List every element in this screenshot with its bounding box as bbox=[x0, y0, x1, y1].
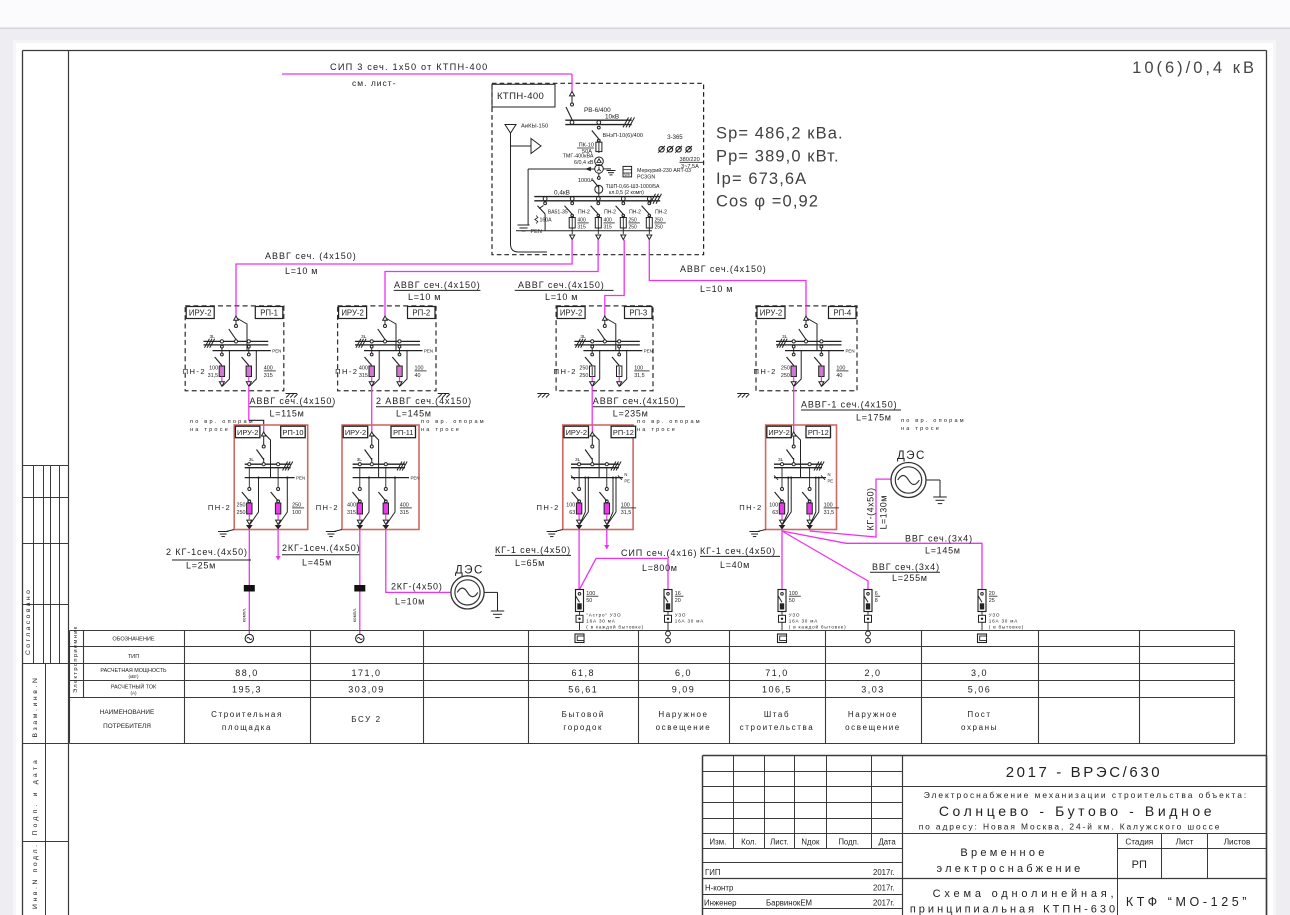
svg-text:УЗО: УЗО bbox=[675, 613, 687, 618]
svg-text:ПН-2: ПН-2 bbox=[537, 503, 560, 512]
svg-text:Временное: Временное bbox=[960, 847, 1047, 859]
svg-text:L=255м: L=255м bbox=[892, 573, 928, 583]
svg-text:ВА51-35: ВА51-35 bbox=[548, 210, 568, 216]
svg-text:315: 315 bbox=[604, 225, 613, 231]
svg-text:Наружное: Наружное bbox=[658, 710, 708, 719]
svg-text:ДЭС: ДЭС bbox=[897, 450, 926, 462]
svg-text:Электроприемник: Электроприемник bbox=[73, 625, 79, 693]
svg-text:по вр. опорам: по вр. опорам bbox=[637, 419, 702, 425]
svg-text:АВВГ-1 сеч.(4х150): АВВГ-1 сеч.(4х150) bbox=[801, 400, 898, 410]
svg-text:Подп.: Подп. bbox=[838, 838, 859, 847]
svg-text:УЗО: УЗО bbox=[789, 613, 801, 618]
svg-text:100: 100 bbox=[769, 503, 778, 509]
svg-text:РП-11: РП-11 bbox=[393, 428, 413, 437]
svg-text:L=10 м: L=10 м bbox=[700, 284, 733, 294]
svg-text:ОБОЗНАЧЕНИЕ: ОБОЗНАЧЕНИЕ bbox=[112, 637, 155, 643]
svg-text:РП: РП bbox=[1132, 859, 1147, 871]
svg-text:88,0: 88,0 bbox=[235, 668, 259, 678]
svg-text:ИРУ-2: ИРУ-2 bbox=[189, 309, 212, 318]
svg-text:Cos φ =0,92: Cos φ =0,92 bbox=[716, 193, 819, 211]
svg-text:2017г.: 2017г. bbox=[873, 899, 894, 908]
svg-text:Штаб: Штаб bbox=[764, 710, 790, 719]
svg-text:L=40м: L=40м bbox=[720, 560, 750, 570]
svg-text:на тросе: на тросе bbox=[901, 426, 941, 432]
svg-text:100: 100 bbox=[292, 510, 301, 516]
svg-text:на тросе: на тросе bbox=[637, 427, 677, 433]
svg-text:по адресу: Новая Москва, 24-й: по адресу: Новая Москва, 24-й км. Калужс… bbox=[919, 822, 1222, 832]
svg-text:АиКЫ-150: АиКЫ-150 bbox=[521, 123, 548, 129]
svg-text:9,09: 9,09 bbox=[672, 685, 696, 695]
svg-text:по вр. опорам: по вр. опорам bbox=[901, 418, 966, 424]
svg-text:ИРУ-2: ИРУ-2 bbox=[760, 309, 783, 318]
svg-text:( в каждой бытовке): ( в каждой бытовке) bbox=[789, 624, 847, 630]
svg-text:PEN: PEN bbox=[531, 229, 542, 235]
svg-text:ИРУ-2: ИРУ-2 bbox=[345, 428, 366, 437]
svg-text:171,0: 171,0 bbox=[351, 668, 381, 678]
svg-text:освещение: освещение bbox=[656, 723, 712, 732]
svg-text:25: 25 bbox=[989, 598, 995, 604]
svg-text:АВВГ сеч.(4х150): АВВГ сеч.(4х150) bbox=[680, 264, 767, 274]
svg-text:Инв.N подл.: Инв.N подл. bbox=[32, 842, 39, 909]
svg-text:PEN: PEN bbox=[272, 349, 281, 354]
svg-text:З-365: З-365 bbox=[667, 135, 683, 141]
svg-text:31,5: 31,5 bbox=[634, 373, 645, 379]
svg-text:31,5: 31,5 bbox=[208, 373, 219, 379]
svg-text:250: 250 bbox=[781, 373, 790, 379]
svg-text:3~7,5А: 3~7,5А bbox=[681, 164, 699, 170]
svg-text:ВВГ сеч.(3х4): ВВГ сеч.(3х4) bbox=[872, 562, 940, 572]
svg-text:Электроснабжение механизации с: Электроснабжение механизации строительст… bbox=[924, 790, 1248, 800]
svg-text:ПН-2: ПН-2 bbox=[754, 367, 777, 376]
svg-text:61,8: 61,8 bbox=[571, 668, 595, 678]
svg-text:ПН-2: ПН-2 bbox=[578, 210, 590, 216]
svg-text:ПН-2: ПН-2 bbox=[208, 503, 231, 512]
svg-text:3,03: 3,03 bbox=[861, 685, 885, 695]
svg-text:195,3: 195,3 bbox=[232, 685, 262, 695]
svg-text:Изм.: Изм. bbox=[710, 838, 727, 847]
svg-text:см. лист-: см. лист- bbox=[352, 78, 397, 88]
svg-text:PE: PE bbox=[828, 479, 834, 484]
svg-text:50: 50 bbox=[789, 598, 795, 604]
svg-text:ПН-2: ПН-2 bbox=[335, 367, 358, 376]
svg-text:250: 250 bbox=[579, 373, 588, 379]
svg-text:400: 400 bbox=[359, 366, 368, 372]
svg-text:6/0,4 кВ: 6/0,4 кВ bbox=[574, 160, 594, 166]
svg-text:Ip= 673,6А: Ip= 673,6А bbox=[716, 170, 807, 188]
svg-text:3L: 3L bbox=[357, 457, 363, 463]
svg-text:по вр. опорам: по вр. опорам bbox=[421, 419, 486, 425]
svg-text:Листов: Листов bbox=[1224, 838, 1251, 847]
svg-text:2 КГ-1сеч.(4х50): 2 КГ-1сеч.(4х50) bbox=[166, 547, 248, 557]
svg-text:ВНэП-10(6)/400: ВНэП-10(6)/400 bbox=[603, 133, 643, 139]
svg-text:PEN: PEN bbox=[411, 475, 420, 480]
svg-text:РП-1: РП-1 bbox=[260, 309, 278, 318]
svg-text:(кВт): (кВт) bbox=[128, 674, 139, 679]
svg-text:РП-3: РП-3 bbox=[629, 309, 647, 318]
svg-text:ДЭС: ДЭС bbox=[455, 565, 484, 577]
svg-text:АВВГ сеч.(4х150): АВВГ сеч.(4х150) bbox=[518, 280, 605, 290]
svg-text:Взам.инв.N: Взам.инв.N bbox=[32, 676, 39, 738]
svg-text:100: 100 bbox=[209, 366, 218, 372]
svg-text:РП-12: РП-12 bbox=[808, 428, 829, 437]
svg-text:ПН-2: ПН-2 bbox=[316, 503, 339, 512]
svg-text:РП-12: РП-12 bbox=[613, 428, 634, 437]
svg-text:( в бытовке): ( в бытовке) bbox=[989, 625, 1024, 630]
svg-text:N: N bbox=[828, 472, 831, 477]
svg-text:КГ-(4х50): КГ-(4х50) bbox=[866, 487, 876, 530]
svg-text:0,4кВ: 0,4кВ bbox=[554, 190, 570, 197]
svg-text:ПН-2: ПН-2 bbox=[739, 503, 762, 512]
svg-text:Nдок: Nдок bbox=[801, 838, 820, 847]
svg-text:400: 400 bbox=[347, 503, 356, 509]
svg-text:L=10м: L=10м bbox=[395, 597, 425, 607]
svg-text:Лист: Лист bbox=[1176, 838, 1194, 847]
svg-text:Pp= 389,0 кВт.: Pp= 389,0 кВт. bbox=[716, 148, 840, 166]
svg-text:Подп. и дата: Подп. и дата bbox=[32, 757, 39, 835]
svg-text:Строительная: Строительная bbox=[211, 710, 283, 719]
svg-text:2КГ-(4х50): 2КГ-(4х50) bbox=[391, 582, 443, 592]
svg-text:компл.: компл. bbox=[352, 608, 357, 622]
svg-text:ИРУ-2: ИРУ-2 bbox=[560, 309, 583, 318]
svg-text:303,09: 303,09 bbox=[348, 685, 385, 695]
svg-text:охраны: охраны bbox=[961, 723, 998, 732]
svg-text:10кВ: 10кВ bbox=[605, 113, 619, 120]
svg-text:16А 30 мА: 16А 30 мА bbox=[675, 619, 704, 624]
svg-text:L=10 м: L=10 м bbox=[285, 266, 318, 276]
svg-text:63: 63 bbox=[772, 510, 778, 516]
svg-text:PE: PE bbox=[624, 479, 630, 484]
svg-text:площадка: площадка bbox=[222, 723, 272, 732]
svg-text:16А 30 мА: 16А 30 мА bbox=[989, 619, 1018, 624]
svg-text:250: 250 bbox=[629, 225, 638, 231]
svg-text:Инженер: Инженер bbox=[704, 899, 737, 908]
svg-text:ПН-2: ПН-2 bbox=[604, 210, 616, 216]
svg-text:освещение: освещение bbox=[845, 723, 901, 732]
svg-text:Схема однолинейная,: Схема однолинейная, bbox=[933, 888, 1118, 900]
svg-text:Согласовано: Согласовано bbox=[25, 588, 32, 655]
svg-text:ИРУ-2: ИРУ-2 bbox=[237, 428, 258, 437]
svg-text:кл.0,5 (2 комп): кл.0,5 (2 комп) bbox=[609, 190, 644, 196]
svg-text:ТМГ-400кВА: ТМГ-400кВА bbox=[563, 154, 594, 160]
svg-text:250: 250 bbox=[781, 366, 790, 372]
svg-text:5,06: 5,06 bbox=[968, 685, 992, 695]
svg-text:городок: городок bbox=[563, 723, 603, 732]
svg-text:ВВГ сеч.(3х4): ВВГ сеч.(3х4) bbox=[905, 533, 973, 543]
svg-text:3L: 3L bbox=[778, 457, 784, 463]
svg-text:Дата: Дата bbox=[878, 838, 896, 847]
svg-text:L=45м: L=45м bbox=[302, 558, 332, 568]
svg-text:АВВГ сеч. (4х150): АВВГ сеч. (4х150) bbox=[265, 251, 357, 261]
svg-text:Кол.: Кол. bbox=[741, 838, 756, 847]
svg-text:УЗО: УЗО bbox=[989, 613, 1001, 618]
svg-text:РАСЧЕТНЫЙ ТОК: РАСЧЕТНЫЙ ТОК bbox=[111, 683, 157, 691]
svg-text:40: 40 bbox=[415, 373, 421, 379]
svg-text:315: 315 bbox=[264, 373, 273, 379]
svg-text:16А 30 мА: 16А 30 мА bbox=[789, 619, 818, 624]
svg-text:Лист.: Лист. bbox=[770, 838, 788, 847]
svg-text:на тросе: на тросе bbox=[190, 427, 230, 433]
svg-text:БСУ 2: БСУ 2 bbox=[351, 715, 381, 724]
svg-text:L=235м: L=235м bbox=[613, 409, 649, 419]
svg-text:СИП 3 сеч. 1х50 от КТПН-400: СИП 3 сеч. 1х50 от КТПН-400 bbox=[330, 62, 488, 72]
svg-text:10(6)/0,4 кВ: 10(6)/0,4 кВ bbox=[1132, 59, 1257, 77]
svg-text:ИРУ-2: ИРУ-2 bbox=[768, 428, 789, 437]
svg-text:40: 40 bbox=[836, 373, 842, 379]
svg-text:РП-4: РП-4 bbox=[833, 309, 851, 318]
svg-text:100: 100 bbox=[566, 503, 575, 509]
svg-text:PEN: PEN bbox=[846, 349, 855, 354]
svg-text:ПН-2: ПН-2 bbox=[655, 210, 667, 216]
svg-text:250: 250 bbox=[655, 225, 664, 231]
svg-text:56,61: 56,61 bbox=[568, 685, 598, 695]
svg-text:2,0: 2,0 bbox=[864, 668, 881, 678]
svg-text:"Астро" УЗО: "Астро" УЗО bbox=[586, 613, 621, 618]
svg-text:3,0: 3,0 bbox=[971, 668, 988, 678]
svg-text:PEN: PEN bbox=[296, 475, 305, 480]
svg-text:АВВГ сеч.(4х150): АВВГ сеч.(4х150) bbox=[593, 396, 680, 406]
svg-text:20: 20 bbox=[675, 598, 681, 604]
svg-text:L=145м: L=145м bbox=[396, 409, 432, 419]
svg-text:50: 50 bbox=[586, 598, 592, 604]
svg-text:электроснабжение: электроснабжение bbox=[937, 863, 1084, 875]
svg-text:РП-10: РП-10 bbox=[283, 428, 304, 437]
svg-text:ПОТРЕБИТЕЛЯ: ПОТРЕБИТЕЛЯ bbox=[103, 723, 151, 730]
svg-text:РС3GN: РС3GN bbox=[637, 175, 655, 181]
svg-text:3L: 3L bbox=[575, 457, 581, 463]
svg-text:PEN: PEN bbox=[644, 349, 653, 354]
svg-text:АВВГ сеч.(4х150): АВВГ сеч.(4х150) bbox=[394, 280, 481, 290]
svg-text:8: 8 bbox=[875, 598, 878, 604]
svg-text:6,0: 6,0 bbox=[675, 668, 692, 678]
svg-text:(А): (А) bbox=[130, 691, 137, 696]
svg-text:КТПН-400: КТПН-400 bbox=[497, 91, 544, 102]
svg-text:106,5: 106,5 bbox=[762, 685, 792, 695]
svg-text:PEN: PEN bbox=[424, 349, 433, 354]
svg-text:КГ-1 сеч.(4х50): КГ-1 сеч.(4х50) bbox=[495, 545, 571, 555]
svg-text:ТИП: ТИП bbox=[128, 654, 139, 660]
svg-text:2017г.: 2017г. bbox=[873, 884, 894, 893]
svg-text:31,5: 31,5 bbox=[621, 510, 632, 516]
svg-text:16А 30 мА: 16А 30 мА bbox=[586, 619, 615, 624]
svg-text:L=175м: L=175м bbox=[856, 413, 892, 423]
svg-text:строительства: строительства bbox=[740, 723, 815, 732]
svg-text:компл.: компл. bbox=[241, 608, 246, 622]
svg-text:L=145м: L=145м bbox=[925, 546, 961, 556]
svg-text:L=65м: L=65м bbox=[515, 558, 545, 568]
svg-text:L=115м: L=115м bbox=[270, 409, 305, 419]
svg-text:Sp= 486,2 кВа.: Sp= 486,2 кВа. bbox=[716, 125, 844, 143]
svg-text:L=10 м: L=10 м bbox=[545, 292, 578, 302]
svg-text:на тросе: на тросе bbox=[421, 427, 461, 433]
svg-text:по вр. опорам: по вр. опорам bbox=[190, 419, 255, 425]
svg-text:3L: 3L bbox=[249, 457, 255, 463]
svg-text:СИП сеч.(4х16): СИП сеч.(4х16) bbox=[621, 548, 697, 558]
svg-text:ПН-2: ПН-2 bbox=[554, 367, 577, 376]
svg-text:315: 315 bbox=[577, 225, 586, 231]
svg-text:L=25м: L=25м bbox=[186, 561, 216, 571]
svg-text:КГ-1 сеч.(4х50): КГ-1 сеч.(4х50) bbox=[700, 546, 776, 556]
svg-text:Н-контр: Н-контр bbox=[705, 884, 734, 893]
svg-text:1000А: 1000А bbox=[578, 178, 594, 184]
svg-text:L=130м: L=130м bbox=[879, 495, 889, 529]
svg-text:N: N bbox=[624, 472, 627, 477]
svg-text:БарвинокЕМ: БарвинокЕМ bbox=[766, 899, 812, 908]
svg-text:2017 - ВРЭС/630: 2017 - ВРЭС/630 bbox=[1006, 764, 1163, 781]
svg-text:71,0: 71,0 bbox=[765, 668, 789, 678]
svg-text:РП-2: РП-2 bbox=[412, 309, 430, 318]
svg-text:315: 315 bbox=[359, 373, 368, 379]
svg-text:Wh: Wh bbox=[624, 173, 630, 177]
svg-text:ИРУ-2: ИРУ-2 bbox=[566, 428, 587, 437]
svg-text:ГИП: ГИП bbox=[705, 868, 720, 877]
svg-text:Пост: Пост bbox=[967, 710, 991, 719]
svg-text:АВВГ сеч.(4х150): АВВГ сеч.(4х150) bbox=[250, 396, 337, 406]
svg-text:принципиальная КТПН-630: принципиальная КТПН-630 bbox=[910, 904, 1118, 915]
svg-text:160А: 160А bbox=[540, 218, 553, 224]
svg-text:L=800м: L=800м bbox=[642, 563, 678, 573]
svg-text:250: 250 bbox=[237, 510, 246, 516]
svg-text:315: 315 bbox=[400, 510, 409, 516]
svg-text:250: 250 bbox=[579, 366, 588, 372]
svg-text:( в каждой бытовке): ( в каждой бытовке) bbox=[586, 624, 644, 630]
svg-text:НАИМЕНОВАНИЕ: НАИМЕНОВАНИЕ bbox=[100, 709, 154, 716]
svg-text:ИРУ-2: ИРУ-2 bbox=[341, 309, 364, 318]
svg-text:2КГ-1сеч.(4х50): 2КГ-1сеч.(4х50) bbox=[282, 543, 361, 553]
svg-text:ПН-2: ПН-2 bbox=[183, 367, 206, 376]
svg-text:63: 63 bbox=[569, 510, 575, 516]
svg-text:КТФ “МО-125”: КТФ “МО-125” bbox=[1126, 895, 1250, 909]
svg-text:31,5: 31,5 bbox=[824, 510, 835, 516]
svg-text:2 АВВГ сеч.(4х150): 2 АВВГ сеч.(4х150) bbox=[376, 396, 472, 406]
svg-text:2017г.: 2017г. bbox=[873, 868, 894, 877]
svg-text:Бытовой: Бытовой bbox=[562, 710, 605, 719]
svg-text:Наружное: Наружное bbox=[848, 710, 898, 719]
svg-text:315: 315 bbox=[347, 510, 356, 516]
svg-text:Стадия: Стадия bbox=[1125, 838, 1153, 847]
svg-text:250: 250 bbox=[237, 503, 246, 509]
svg-text:L=10 м: L=10 м bbox=[408, 292, 441, 302]
svg-text:ПН-2: ПН-2 bbox=[629, 210, 641, 216]
svg-text:Солнцево - Бутово - Видное: Солнцево - Бутово - Видное bbox=[939, 803, 1215, 819]
